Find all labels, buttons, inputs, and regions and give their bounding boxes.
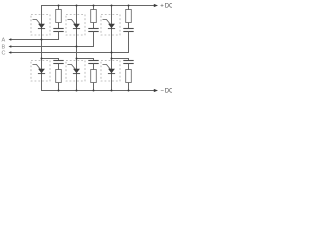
resistor R3 [126,10,132,23]
wire R6 to bottom bus [128,83,130,92]
wire leg 2 jumper to snubber 5 [76,58,94,60]
node bottom bus junctions [58,90,130,92]
thyristor T1 [33,20,46,29]
wire top bus to R1 [58,5,60,10]
svg-text:+: + [160,3,164,9]
node phase B tap [76,46,78,48]
dashed module box around T5 [101,15,120,36]
svg-text:A: A [2,38,6,44]
wire R2 to C2 [93,23,95,30]
wire leg 3 jumper to snubber 6 [111,58,129,60]
capacitor C2 [88,29,98,32]
node jumper 2 junction [76,58,78,60]
node phase B input arrow [9,45,12,48]
label - DC [160,88,174,94]
dashed module box around T1 [31,15,50,36]
capacitor C4 [53,61,63,64]
svg-text:DC: DC [165,3,172,9]
wire top DC+ bus [41,5,155,7]
label + DC [160,3,174,9]
wire C5 to R5 [93,64,95,71]
wire bottom DC- bus [41,90,155,92]
wire jumper to C4 [58,59,60,62]
capacitor C5 [88,61,98,64]
resistor R4 [56,70,62,83]
wire leg 1 vertical [41,5,43,91]
svg-text:C: C [2,51,6,57]
resistor R2 [91,10,97,23]
wire jumper to C5 [93,59,95,62]
dashed module box around T6 [66,61,85,82]
wire leg 3 vertical [111,5,113,91]
capacitor C1 [53,29,63,32]
resistor R6 [126,70,132,83]
node bottom bus output arrow [154,89,158,92]
wire phase C [11,52,129,54]
node phase C tap [111,52,113,54]
thyristor T6 [68,65,81,74]
node top bus junctions [58,5,130,7]
capacitor C3 [123,29,133,32]
node phase A input arrow [9,38,12,41]
resistor R1 [56,10,62,23]
wire top bus to R3 [128,5,130,10]
resistor R5 [91,70,97,83]
dashed module box around T3 [66,15,85,36]
wire C3 to phase C [128,32,130,54]
node jumper 1 junction [41,58,43,60]
thyristor T2 [103,65,116,74]
thyristor T3 [68,20,81,29]
wire R4 to bottom bus [58,83,60,92]
wire leg 2 vertical [76,5,78,91]
wire C6 to R6 [128,64,130,71]
wire C4 to R4 [58,64,60,71]
capacitor C6 [123,61,133,64]
wire jumper to C6 [128,59,130,62]
node jumper 3 junction [111,58,113,60]
wire leg 1 jumper to snubber 4 [41,58,59,60]
wire R5 to bottom bus [93,83,95,92]
thyristor T5 [103,20,116,29]
dashed module box around T2 [101,61,120,82]
node phase A tap [41,39,43,41]
wire phase A [11,39,59,41]
wire top bus to R2 [93,5,95,10]
wire R3 to C3 [128,23,130,30]
thyristor T4 [33,65,46,74]
wire C1 to phase A [58,32,60,41]
wire phase B [11,46,94,48]
dashed module box around T4 [31,61,50,82]
node phase C input arrow [9,51,12,54]
svg-text:DC: DC [165,88,172,94]
wire R1 to C1 [58,23,60,30]
node top bus output arrow [154,4,158,7]
wire C2 to phase B [93,32,95,48]
